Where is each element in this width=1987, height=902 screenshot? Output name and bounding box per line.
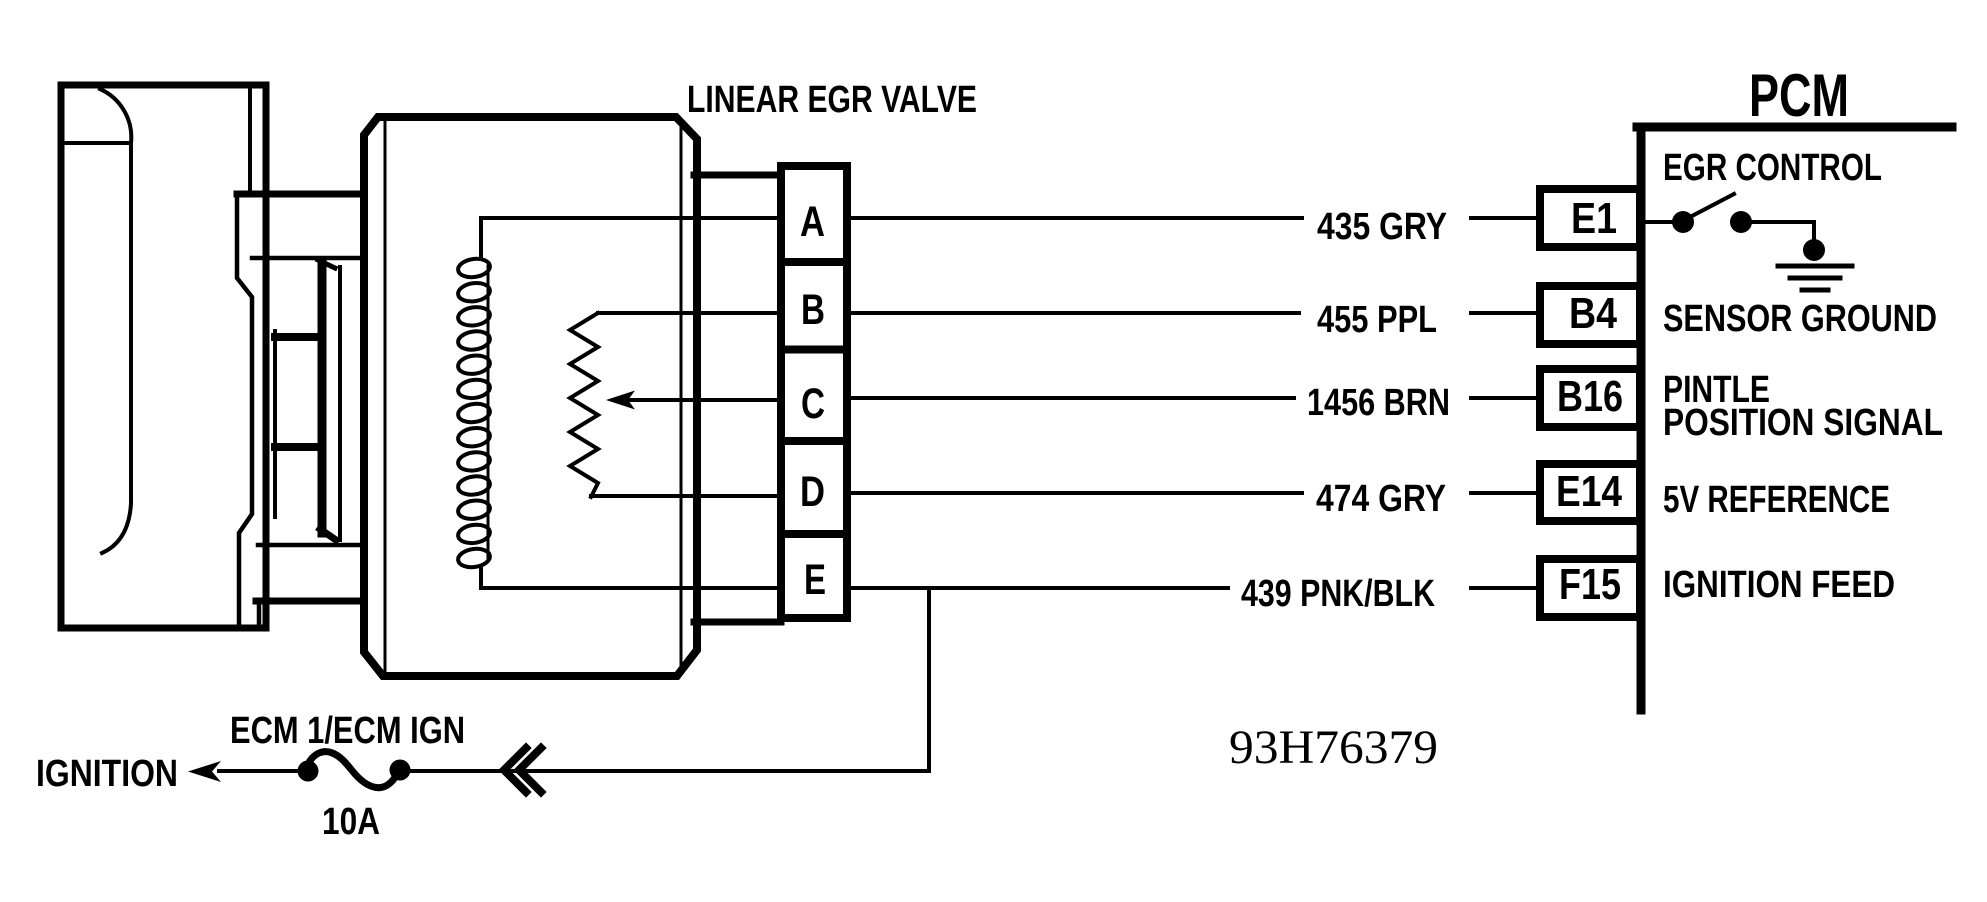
PCM top line <box>1637 123 1952 132</box>
wire 439 PNK/BLK <box>848 586 1538 590</box>
solenoid inner right line <box>680 121 683 672</box>
wire coil bottom to pin E <box>481 566 781 588</box>
wiper arrow from pin C <box>630 398 781 402</box>
pintle rung upper <box>275 333 320 341</box>
pintle shaft left line <box>273 331 277 517</box>
svg-text:POSITION SIGNAL: POSITION SIGNAL <box>1663 402 1943 444</box>
pintle rung lower <box>275 443 320 451</box>
valve body corner arc <box>100 89 131 143</box>
EGR control switch stub <box>1640 220 1672 224</box>
svg-text:LINEAR EGR VALVE: LINEAR EGR VALVE <box>687 79 977 121</box>
svg-text:439 PNK/BLK: 439 PNK/BLK <box>1241 573 1435 615</box>
PCM terminal B16 <box>1540 369 1640 427</box>
valve body inner top ledge <box>64 141 131 145</box>
wire 474 GRY <box>848 491 1538 495</box>
wire 1456 BRN <box>848 396 1538 400</box>
pin separator C/D <box>781 437 847 445</box>
valve body inner vertical contour <box>102 143 131 553</box>
bracket top flange <box>237 191 364 198</box>
pin separator A/B <box>781 258 847 266</box>
valve body inner right line <box>248 89 252 193</box>
svg-text:PCM: PCM <box>1749 62 1849 129</box>
svg-text:E1: E1 <box>1571 194 1617 243</box>
svg-text:B4: B4 <box>1569 289 1617 338</box>
switch contact left <box>1672 211 1694 233</box>
svg-text:ECM 1/ECM IGN: ECM 1/ECM IGN <box>230 710 465 752</box>
ground junction dot <box>1803 239 1825 261</box>
connector neck top <box>694 172 781 179</box>
bracket bottom flange top line <box>258 543 364 548</box>
svg-text:E: E <box>804 556 826 604</box>
pin separator B/C <box>781 346 847 354</box>
svg-text:EGR CONTROL: EGR CONTROL <box>1663 147 1882 189</box>
pintle shaft top cap <box>318 260 335 268</box>
switch blade <box>1690 194 1734 217</box>
svg-text:93H76379: 93H76379 <box>1229 721 1438 774</box>
bracket bottom closure <box>257 601 262 626</box>
solenoid housing <box>364 117 697 676</box>
wire 435 GRY <box>848 216 1538 220</box>
connector neck bottom <box>694 619 781 626</box>
pintle shaft right line <box>338 267 342 540</box>
inline connector chevrons <box>504 748 541 792</box>
wire resistor bottom to pin D <box>591 494 781 498</box>
wire 455 PPL <box>848 311 1538 315</box>
svg-text:IGNITION: IGNITION <box>36 753 178 795</box>
valve body outline <box>61 85 266 628</box>
ground <box>1778 264 1852 269</box>
svg-text:F15: F15 <box>1559 560 1621 609</box>
PCM terminal E14 <box>1540 464 1640 521</box>
svg-text:D: D <box>800 468 825 516</box>
svg-text:C: C <box>801 380 825 428</box>
bracket top flange underside <box>252 256 364 261</box>
svg-text:B16: B16 <box>1557 372 1623 421</box>
ignition feed wire <box>219 769 929 773</box>
svg-text:SENSOR GROUND: SENSOR GROUND <box>1663 298 1937 340</box>
switch contact right <box>1730 211 1752 233</box>
fuse element <box>307 752 399 788</box>
pintle shaft bottom cap <box>320 529 336 540</box>
arrowhead to IGNITION <box>188 761 221 782</box>
fuse ECM1 left dot <box>298 761 319 782</box>
PCM terminal E1 <box>1540 189 1640 247</box>
connector shell <box>781 166 847 618</box>
svg-text:B: B <box>801 286 825 334</box>
pintle shaft main line <box>318 262 327 533</box>
svg-text:10A: 10A <box>322 801 380 843</box>
pin separator D/E <box>781 530 847 538</box>
wire switch to ground <box>1752 222 1814 245</box>
PCM terminal F15 <box>1540 559 1640 617</box>
wire pin B to resistor top <box>598 311 781 315</box>
svg-text:5V REFERENCE: 5V REFERENCE <box>1663 479 1890 521</box>
svg-text:1456 BRN: 1456 BRN <box>1307 382 1450 424</box>
solenoid inner left line <box>384 122 387 671</box>
wire pin A to coil top <box>481 218 781 259</box>
PCM vertical line <box>1637 127 1646 710</box>
bracket bottom flange <box>256 598 366 605</box>
svg-text:435 GRY: 435 GRY <box>1317 206 1447 248</box>
svg-text:IGNITION FEED: IGNITION FEED <box>1663 564 1895 606</box>
svg-text:E14: E14 <box>1556 467 1622 516</box>
solenoid coil L1 <box>457 257 491 569</box>
resistor R1 (pintle position sensor) <box>570 313 598 497</box>
fuse ECM1 right dot <box>390 760 411 781</box>
bracket left profile <box>237 196 252 626</box>
PCM terminal B4 <box>1540 286 1640 344</box>
svg-text:455 PPL: 455 PPL <box>1317 299 1437 341</box>
svg-text:A: A <box>800 198 825 246</box>
wire pin E drop <box>927 588 931 771</box>
svg-text:474 GRY: 474 GRY <box>1316 478 1446 520</box>
